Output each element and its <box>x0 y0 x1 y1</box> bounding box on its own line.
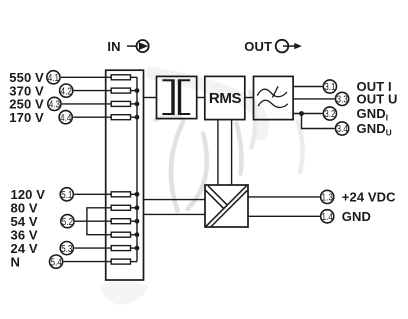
resistor 250 V tap <box>111 101 130 106</box>
svg-text:4.1: 4.1 <box>48 73 60 84</box>
svg-text:3.4: 3.4 <box>336 124 348 135</box>
wire 5.4 to block <box>64 261 112 263</box>
wire block to DC/DC upper <box>144 199 206 201</box>
svg-text:3.1: 3.1 <box>324 82 336 93</box>
svg-text:RMS: RMS <box>209 90 242 107</box>
resistor 54 V tap <box>111 219 130 224</box>
svg-text:GNDI: GNDI <box>357 106 389 122</box>
wire 4.1 to block <box>61 76 111 78</box>
wire 4.2 to block <box>74 90 112 92</box>
wire transformer to RMS <box>197 97 205 99</box>
svg-text:4.3: 4.3 <box>49 100 61 111</box>
junction dot GND <box>299 111 304 116</box>
IN port symbol <box>107 39 148 54</box>
junction dot 54 V <box>135 219 140 224</box>
junction dot 170 V <box>135 115 140 120</box>
wire filter to 3.1 <box>293 86 323 88</box>
terminal 5.1 <box>60 188 73 201</box>
terminal 5.4 <box>50 255 63 268</box>
resistor 120 V tap <box>111 192 130 197</box>
resistor 170 V tap <box>111 115 130 120</box>
wire resistor outputs lower group <box>131 194 138 261</box>
terminal 3.4 <box>336 122 349 135</box>
RMS converter <box>205 76 245 119</box>
wire 4.3 to block <box>62 103 111 105</box>
terminal 1.4 <box>321 210 334 223</box>
junction dot 370 V <box>135 88 140 93</box>
svg-text:170 V: 170 V <box>9 110 44 125</box>
svg-text:+24 VDC: +24 VDC <box>342 190 396 205</box>
resistor 370 V tap <box>111 88 130 93</box>
wire resistor outputs upper group <box>131 77 138 117</box>
wire 5.1 to block <box>74 193 111 195</box>
wire 5.2 to block <box>75 220 111 222</box>
junction dot 250 V <box>135 102 140 107</box>
terminal 4.3 <box>48 97 61 110</box>
wire DC/DC to 1.3 <box>248 196 320 198</box>
wire RMS to DC/DC right leg <box>231 120 233 185</box>
terminal 4.4 <box>59 111 72 124</box>
wire 5.3 to block <box>74 247 111 249</box>
svg-text:IN: IN <box>107 39 120 54</box>
terminal 4.1 <box>47 71 60 84</box>
svg-text:1.3: 1.3 <box>322 193 334 204</box>
wire common bus vertical <box>136 77 138 261</box>
terminal 4.2 <box>60 84 73 97</box>
wire DC/DC to 1.4 <box>248 215 320 217</box>
svg-text:3.2: 3.2 <box>324 109 336 120</box>
wire filter to 3.3 <box>293 98 335 100</box>
terminal 3.1 <box>323 80 336 93</box>
DC/DC converter <box>205 185 248 227</box>
terminal 5.3 <box>60 242 73 255</box>
wire block to DC/DC lower <box>144 213 206 215</box>
low-pass filter <box>254 76 294 119</box>
resistor 550 V tap <box>111 75 130 80</box>
wire 4.4 to block <box>73 116 111 118</box>
svg-text:5.2: 5.2 <box>62 217 74 228</box>
wire RMS to DC/DC left leg <box>217 120 219 185</box>
terminal 3.2 <box>323 107 336 120</box>
svg-text:GND: GND <box>342 209 371 224</box>
svg-text:N: N <box>11 254 21 269</box>
svg-text:OUT: OUT <box>244 39 272 54</box>
input range divider block <box>106 70 144 280</box>
svg-text:5.4: 5.4 <box>50 257 62 268</box>
wire filter to 3.2 <box>293 113 323 115</box>
svg-text:1.4: 1.4 <box>322 212 334 223</box>
junction dot 120 V <box>135 192 140 197</box>
svg-text:4.4: 4.4 <box>60 113 72 124</box>
resistor 36 V tap <box>111 232 130 237</box>
svg-text:4.2: 4.2 <box>61 86 73 97</box>
svg-text:3.3: 3.3 <box>336 95 348 106</box>
terminal 5.2 <box>61 215 74 228</box>
transformer <box>157 76 197 118</box>
svg-text:OUT U: OUT U <box>357 92 398 107</box>
junction dot 24 V <box>135 246 140 251</box>
junction dot 80 V <box>135 205 140 210</box>
resistor 24 V tap <box>111 246 130 251</box>
svg-text:5.3: 5.3 <box>61 244 73 255</box>
wire RMS to filter <box>245 97 254 99</box>
terminal 1.3 <box>321 190 334 203</box>
resistor 80 V tap <box>111 205 130 210</box>
wire GND branch to 3.4 <box>302 114 335 129</box>
junction dot 36 V <box>135 232 140 237</box>
resistor N tap <box>111 259 130 264</box>
wire 80 V bracket <box>87 208 111 235</box>
wire block to transformer <box>144 97 157 99</box>
OUT port symbol <box>244 39 301 54</box>
terminal 3.3 <box>336 92 349 105</box>
svg-text:5.1: 5.1 <box>61 190 73 201</box>
